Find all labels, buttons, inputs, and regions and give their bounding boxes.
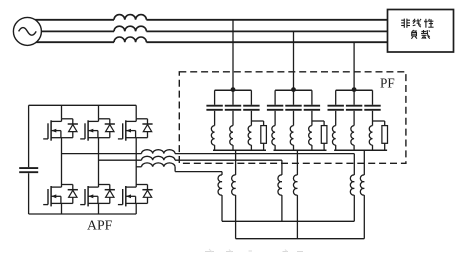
wire: group 3 branch 2 vertical bbox=[353, 90, 355, 105]
inductor Lc1 (coupling) bbox=[142, 150, 176, 154]
wire: group 2 branch 2 coil to bottom bar bbox=[293, 145, 295, 150]
wire: group 2 branch 1 vertical bbox=[274, 90, 276, 105]
inductor Ls1 (line inductor phase a) bbox=[114, 15, 146, 20]
load box (nonlinear load) bbox=[388, 10, 454, 53]
wire: grid phase c right segment to load bbox=[146, 41, 387, 43]
wire: leg 3 from top rail bbox=[135, 105, 137, 119]
capacitor C32 bbox=[346, 105, 362, 107]
wire: group 1 branch 3 coil to bottom bar bbox=[250, 145, 252, 150]
capacitor C33 bbox=[364, 105, 380, 107]
wire: group 2 branch 3 below cap bbox=[311, 111, 313, 126]
transistor Q4 bbox=[98, 185, 100, 188]
wire: phase b down to T2 primary bbox=[281, 160, 283, 175]
label: load text char 性 bbox=[425, 19, 427, 28]
wire: inverter phase c out bbox=[136, 166, 141, 168]
diode D-Q2 bbox=[62, 184, 73, 186]
inductor L32 bbox=[351, 126, 354, 146]
wire: phase a to transformer T3 bbox=[175, 153, 354, 155]
diode D-Q3 bbox=[99, 118, 110, 120]
wire: group 1 branch 2 vertical bbox=[232, 90, 234, 105]
diode D-Q4 bbox=[99, 184, 110, 186]
node: junction dot group 2 bbox=[291, 87, 296, 92]
inductor L12 bbox=[230, 126, 233, 146]
wire: inverter phase b out bbox=[99, 159, 142, 161]
wire: top bar group 3 bbox=[336, 89, 373, 91]
wire: grid phase b right segment to load bbox=[146, 30, 387, 32]
wire: grid phase c left segment bbox=[27, 41, 114, 43]
transformer T1 secondary winding bbox=[235, 174, 237, 176]
wire: leg 3 mid section bbox=[135, 138, 137, 185]
wire: group 3 branch 2 coil to bottom bar bbox=[353, 145, 355, 150]
wire: phase c to transformer T1 bbox=[175, 171, 222, 173]
transformer T1 primary winding bbox=[221, 174, 223, 176]
wire: group 2 branch 2 below cap bbox=[293, 111, 295, 126]
wire: group 1 branch 1 below cap bbox=[214, 111, 216, 126]
transistor Q2 bbox=[61, 185, 63, 188]
wire: group 2 descent to transformer bbox=[296, 150, 298, 175]
wire: phase b to transformer T2 bbox=[175, 159, 282, 161]
wire: leg 1 from top rail bbox=[61, 105, 63, 119]
inductor L33 bbox=[369, 126, 372, 146]
wire: APF DC top rail bbox=[29, 104, 137, 106]
transistor Q6 bbox=[135, 185, 137, 188]
inductor L21 bbox=[272, 126, 275, 146]
inductor L22 bbox=[290, 126, 293, 146]
inductor Ls3 (line inductor phase c) bbox=[114, 37, 146, 42]
wire: inverter phase a out bbox=[62, 153, 142, 155]
wire: grid phase b left segment bbox=[27, 30, 114, 32]
wire: resistor R1 lower lead bbox=[263, 143, 265, 150]
wire: group 3 branch 1 below cap bbox=[335, 111, 337, 126]
capacitor Cdc (DC link) bbox=[19, 167, 38, 169]
wire: group 1 parallel RL top link bbox=[251, 120, 263, 122]
PF passive-filter dashed boundary box bbox=[179, 72, 406, 164]
wire: drop from phase c into filter group 3 bbox=[353, 42, 355, 89]
node: junction dot group 1 bbox=[231, 87, 236, 92]
capacitor C11 bbox=[206, 105, 222, 107]
diode D-Q1 bbox=[62, 118, 73, 120]
resistor R3 bbox=[382, 126, 388, 144]
capacitor C23 bbox=[304, 105, 320, 107]
wire: APF left rail upper bbox=[28, 105, 30, 167]
wire: group 1 branch 2 below cap bbox=[232, 111, 234, 126]
wire: phase c jog down bbox=[174, 166, 176, 168]
wire: APF DC bottom rail bbox=[29, 213, 137, 215]
wire: phase a down to T3 primary bbox=[353, 154, 355, 175]
inductor Lc3 (coupling) bbox=[142, 163, 176, 167]
resistor R2 bbox=[321, 126, 327, 144]
capacitor C21 bbox=[267, 105, 283, 107]
inductor L11 bbox=[211, 126, 214, 146]
wire: group 2 parallel RL top link bbox=[312, 120, 324, 122]
wire: leg 1 to bottom rail bbox=[61, 203, 63, 214]
capacitor C22 bbox=[285, 105, 301, 107]
wire: group 1 branch 1 coil to bottom bar bbox=[214, 145, 216, 150]
wire: top bar group 2 bbox=[275, 89, 312, 91]
wire: group 3 branch 3 below cap bbox=[372, 111, 374, 126]
inductor Lc2 (coupling) bbox=[142, 156, 176, 160]
transistor Q3 bbox=[98, 119, 100, 122]
node: junction dot group 3 bbox=[352, 87, 357, 92]
transformer T2 secondary winding bbox=[296, 174, 298, 176]
wire: phase c down to T1 primary bbox=[221, 172, 223, 175]
label: cropped caption marks at bottom edge bbox=[205, 250, 303, 253]
wire: group 3 descent to transformer bbox=[363, 150, 365, 175]
wire: group 2 branch 2 vertical bbox=[293, 90, 295, 105]
inductor L13 bbox=[248, 126, 251, 146]
wire: group 1 descent to transformer bbox=[235, 150, 237, 175]
wire: secondary bus A bbox=[222, 220, 354, 222]
label: load text char 非 bbox=[403, 19, 405, 28]
wire: group 2 branch 3 coil to bottom bar bbox=[311, 145, 313, 150]
svg-text:PF: PF bbox=[380, 76, 395, 91]
wire: group 3 branch 1 coil to bottom bar bbox=[335, 145, 337, 150]
wire: group 2 branch 1 coil to bottom bar bbox=[274, 145, 276, 150]
wire: group 1 branch 1 vertical bbox=[214, 90, 216, 105]
wire: group 1 branch 3 vertical bbox=[250, 90, 252, 105]
wire: leg 2 to bottom rail bbox=[98, 203, 100, 214]
inductor Ls2 (line inductor phase b) bbox=[114, 26, 146, 31]
wire: APF left rail lower bbox=[28, 173, 30, 214]
wire: secondary bus B bbox=[236, 238, 365, 240]
wire: group 2 branch 1 below cap bbox=[274, 111, 276, 126]
wire: bottom bar group 1 bbox=[213, 149, 266, 151]
diode D-Q6 bbox=[136, 184, 147, 186]
transformer T3 secondary winding bbox=[363, 174, 365, 176]
diode D-Q5 bbox=[136, 118, 147, 120]
wire: grid phase a left segment bbox=[27, 19, 114, 21]
wire: group 3 branch 3 coil to bottom bar bbox=[372, 145, 374, 150]
label: load text char 负 bbox=[412, 30, 414, 32]
wire: group 3 branch 2 below cap bbox=[353, 111, 355, 126]
wire: leg 1 mid section bbox=[61, 138, 63, 185]
capacitor C13 bbox=[243, 105, 259, 107]
AC source G1 (three-phase grid) bbox=[13, 17, 41, 45]
wire: group 3 branch 3 vertical bbox=[372, 90, 374, 105]
wire: top bar group 1 bbox=[215, 89, 252, 91]
capacitor C31 bbox=[328, 105, 344, 107]
wire: resistor R3 lower lead bbox=[384, 143, 386, 150]
wire: leg 3 to bottom rail bbox=[135, 203, 137, 214]
wire: group 1 branch 3 below cap bbox=[250, 111, 252, 126]
inductor L31 bbox=[332, 126, 335, 146]
wire: group 1 branch 2 coil to bottom bar bbox=[232, 145, 234, 150]
transformer T3 primary winding bbox=[353, 174, 355, 176]
wire: resistor R2 lower lead bbox=[323, 143, 325, 150]
label: load text char 线 bbox=[413, 19, 415, 24]
wire: leg 2 mid section bbox=[98, 138, 100, 185]
wire: bottom bar group 2 bbox=[274, 149, 327, 151]
resistor R1 bbox=[261, 126, 267, 144]
wire: grid phase a right segment to load bbox=[146, 19, 387, 21]
transformer T2 primary winding bbox=[281, 174, 283, 176]
wire: group 3 parallel RL top link bbox=[373, 120, 385, 122]
wire: group 2 branch 3 vertical bbox=[311, 90, 313, 105]
label: load text char 载 bbox=[421, 30, 426, 32]
wire: leg 2 from top rail bbox=[98, 105, 100, 119]
transistor Q1 bbox=[61, 119, 63, 122]
wire: bottom bar group 3 bbox=[334, 149, 387, 151]
transistor Q5 bbox=[135, 119, 137, 122]
svg-text:APF: APF bbox=[87, 217, 113, 232]
inductor L23 bbox=[309, 126, 312, 146]
wire: group 3 branch 1 vertical bbox=[335, 90, 337, 105]
capacitor C12 bbox=[225, 105, 241, 107]
wire: drop from phase a into filter group 1 bbox=[232, 20, 234, 90]
wire: drop from phase b into filter group 2 bbox=[293, 31, 295, 89]
